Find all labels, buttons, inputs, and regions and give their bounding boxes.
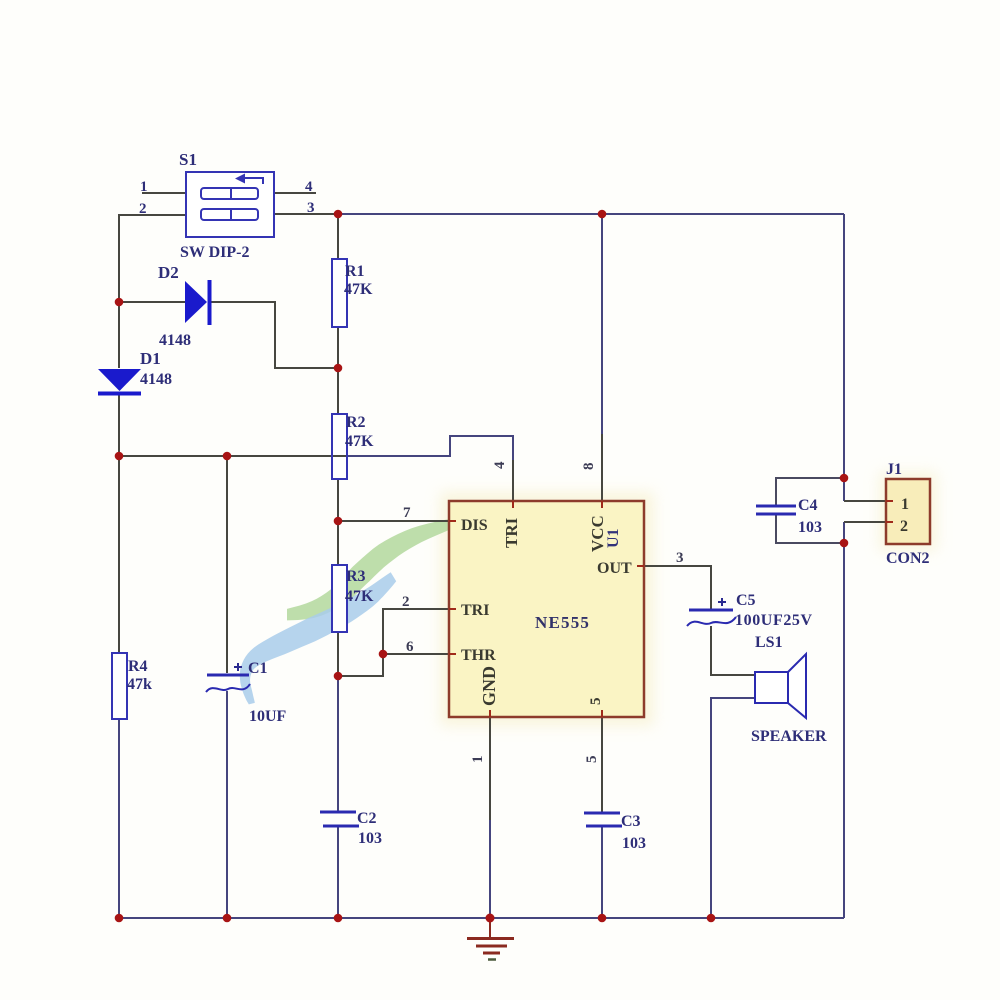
diode D1	[98, 369, 141, 394]
wire pin2 TRI	[383, 609, 449, 654]
svg-text:C1: C1	[248, 660, 268, 677]
svg-text:TRI: TRI	[502, 517, 521, 548]
svg-text:1: 1	[140, 179, 148, 195]
svg-text:OUT: OUT	[597, 560, 632, 577]
wire pin6 THR	[383, 653, 449, 655]
svg-text:S1: S1	[179, 150, 197, 169]
wire R1 top	[337, 214, 339, 259]
svg-text:3: 3	[676, 550, 684, 566]
diode D2	[185, 280, 210, 325]
svg-text:4: 4	[492, 461, 508, 469]
watermark green ribbon	[287, 519, 450, 620]
wire pin4 drop	[512, 460, 514, 501]
wire S1 pin3 to node	[274, 213, 338, 215]
wire J1 pin1	[844, 500, 886, 502]
wire R3 bottom	[337, 632, 339, 676]
wire VCC drop upper	[601, 214, 603, 434]
halo around U1 box	[440, 492, 654, 726]
resistor R4	[112, 653, 127, 719]
svg-text:R2: R2	[346, 414, 366, 431]
speaker LS1	[755, 654, 806, 718]
wire pin5 to C3	[601, 717, 603, 813]
wire top rail	[338, 213, 844, 215]
svg-text:4148: 4148	[140, 371, 172, 388]
svg-text:10UF: 10UF	[249, 708, 287, 725]
wire D2 cathode path	[209, 302, 338, 368]
svg-text:7: 7	[403, 505, 411, 521]
watermark blue ribbon	[240, 572, 396, 704]
resistor R1	[332, 259, 347, 327]
wire R2 bottom	[337, 479, 339, 521]
resistor R3	[332, 565, 347, 632]
svg-text:2: 2	[900, 518, 908, 535]
svg-text:R1: R1	[345, 263, 365, 280]
svg-text:47K: 47K	[344, 281, 373, 298]
svg-text:R4: R4	[128, 658, 148, 675]
op-amp U1 NE555 body	[449, 501, 644, 717]
svg-text:1: 1	[901, 496, 909, 513]
wire R3 node to C2	[337, 676, 339, 812]
svg-text:103: 103	[798, 519, 822, 536]
wire pin7 DIS	[338, 520, 449, 522]
svg-text:4148: 4148	[159, 332, 191, 349]
svg-text:CON2: CON2	[886, 550, 930, 567]
U1 pin ticks	[449, 501, 644, 717]
wire S1 pin1 stub	[142, 192, 186, 194]
svg-text:SPEAKER: SPEAKER	[751, 728, 827, 745]
wire C1 top	[226, 456, 228, 673]
wire right rail lower	[843, 522, 845, 918]
svg-text:2: 2	[139, 201, 147, 217]
svg-text:J1: J1	[886, 461, 902, 478]
wire D2 anode	[119, 301, 185, 303]
svg-text:6: 6	[406, 639, 414, 655]
svg-text:47K: 47K	[345, 588, 374, 605]
svg-text:DIS: DIS	[461, 517, 488, 534]
wire GND pin1 drop lower	[489, 820, 491, 918]
svg-text:R3: R3	[346, 568, 366, 585]
svg-text:U1: U1	[605, 528, 622, 548]
svg-text:D2: D2	[158, 263, 179, 282]
svg-text:103: 103	[358, 830, 382, 847]
svg-text:THR: THR	[461, 647, 496, 664]
svg-text:47K: 47K	[345, 433, 374, 450]
svg-text:8: 8	[581, 463, 597, 471]
halo around J1 box	[879, 472, 937, 551]
capacitor C5	[687, 598, 736, 626]
wire left rail mid	[118, 394, 120, 653]
wire left rail upper	[118, 302, 120, 368]
wire pin3 OUT	[644, 566, 711, 610]
svg-text:103: 103	[622, 835, 646, 852]
wire C4 top stub	[776, 478, 844, 506]
svg-text:GND: GND	[479, 666, 499, 706]
svg-text:D1: D1	[140, 349, 161, 368]
wire C2 bottom	[337, 826, 339, 918]
svg-text:2: 2	[402, 594, 410, 610]
svg-text:5: 5	[584, 756, 600, 764]
wire C1 bottom	[226, 691, 228, 918]
svg-text:1: 1	[470, 756, 486, 764]
wire bottom rail	[119, 917, 844, 919]
wire speaker bottom	[711, 698, 755, 918]
connector J1 body	[886, 479, 930, 544]
wire C4 bottom stub	[776, 514, 844, 543]
wire VCC drop lower pin8	[601, 434, 603, 501]
svg-text:LS1: LS1	[755, 634, 783, 651]
wire right rail upper	[843, 214, 845, 501]
wire R3 top	[337, 521, 339, 565]
wire C3 bottom	[601, 826, 603, 918]
wire crossing R2	[333, 455, 346, 457]
svg-text:NE555: NE555	[535, 613, 590, 632]
wire J1 pin2	[844, 521, 886, 523]
svg-text:3: 3	[307, 200, 315, 216]
wire left rail lower	[118, 719, 120, 918]
resistor R2	[332, 414, 347, 479]
svg-text:C4: C4	[798, 497, 818, 514]
svg-text:100UF25V: 100UF25V	[735, 612, 813, 629]
svg-text:TRI: TRI	[461, 602, 489, 619]
wire S1 pin2 to left rail	[119, 215, 186, 302]
svg-text:4: 4	[305, 179, 313, 195]
svg-text:C2: C2	[357, 810, 377, 827]
wire R2 top	[337, 368, 339, 414]
wire C5 bottom to speaker top	[711, 626, 755, 675]
capacitor C2	[320, 812, 359, 826]
wire node row y456	[119, 455, 338, 457]
capacitor C4	[756, 506, 796, 514]
svg-text:SW DIP-2: SW DIP-2	[180, 244, 250, 261]
wire R1 bottom	[337, 327, 339, 368]
switch S1 body	[186, 172, 274, 237]
svg-text:47k: 47k	[127, 676, 152, 693]
svg-text:C3: C3	[621, 813, 641, 830]
wire node 6 down-left	[338, 654, 383, 676]
svg-text:C5: C5	[736, 592, 756, 609]
wire GND pin1 drop	[489, 717, 491, 820]
wire pin4 RESET path	[338, 436, 513, 460]
svg-text:5: 5	[588, 698, 604, 706]
J1 pin ticks	[886, 501, 893, 522]
ground	[467, 918, 514, 960]
capacitor C1	[206, 663, 250, 692]
wire S1 pin4 stub	[274, 192, 316, 194]
capacitor C3	[584, 813, 622, 826]
